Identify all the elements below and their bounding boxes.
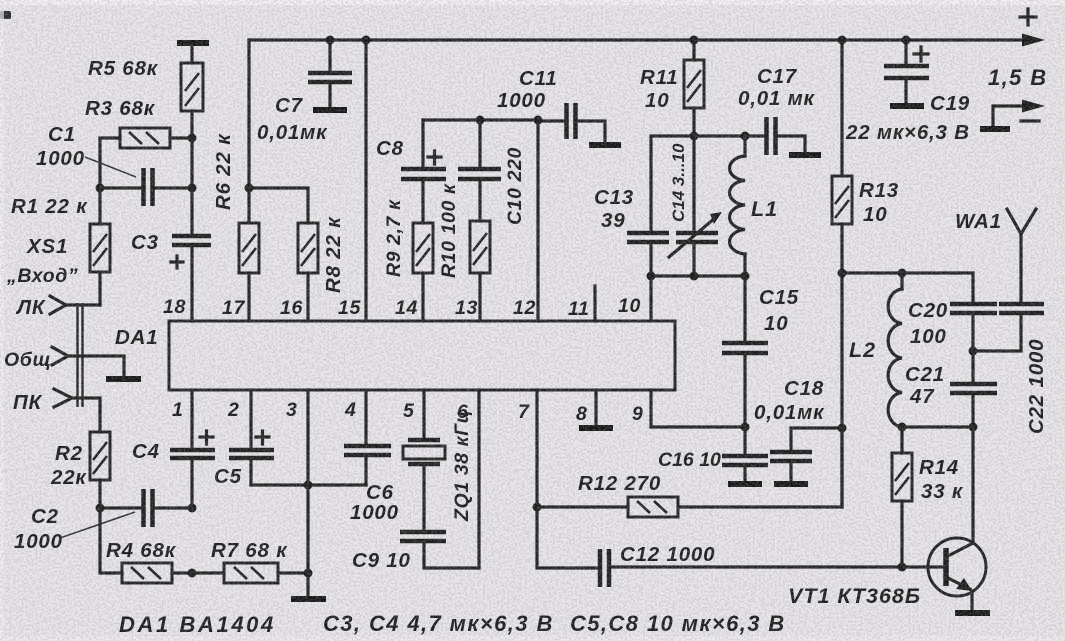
resistor R4 xyxy=(100,508,192,583)
inductor L1 xyxy=(730,136,745,276)
wire pointer C2 xyxy=(60,512,135,538)
op-amp DA1 IC body BA1404 xyxy=(169,321,675,390)
ground pin 3 xyxy=(291,596,326,602)
node C18 tap xyxy=(838,424,847,433)
node R12 tap xyxy=(533,503,542,512)
ground C11 xyxy=(589,142,621,148)
scan edge artifacts xyxy=(0,11,11,19)
ground C18 xyxy=(774,481,808,487)
node + power rail top xyxy=(249,34,1045,47)
ground pin 8 xyxy=(579,425,613,431)
wire pin 9 xyxy=(651,390,745,427)
node R11 rail xyxy=(690,36,699,45)
capacitor C12 xyxy=(600,549,946,587)
antenna WA1 xyxy=(1007,209,1036,303)
resistor R9 xyxy=(413,223,433,321)
node R13/L2 bus xyxy=(838,269,847,278)
resistor R10 xyxy=(470,221,490,321)
node L1 top xyxy=(741,132,750,141)
node pin3 cross xyxy=(304,481,313,490)
capacitor C17 xyxy=(745,117,805,155)
node R14 base wire xyxy=(898,563,907,572)
capacitor C2 xyxy=(100,489,192,527)
node C15/C16/pin9 xyxy=(741,423,750,432)
capacitor C14 trimmer xyxy=(669,136,722,276)
node R13 rail xyxy=(838,36,847,45)
capacitor C22 xyxy=(973,304,1044,351)
node R11/C14 xyxy=(690,132,699,141)
resistor R1 xyxy=(90,188,110,305)
capacitor C18 xyxy=(770,428,842,481)
ground xyxy=(106,376,141,382)
capacitor C15 xyxy=(722,276,768,427)
capacitor C11 xyxy=(538,103,605,142)
node C2 left xyxy=(96,504,105,513)
capacitor C21 xyxy=(950,351,997,427)
capacitor C6 xyxy=(344,390,391,485)
capacitor C16 xyxy=(722,427,768,481)
resistor R5 xyxy=(177,43,209,138)
capacitor C4 xyxy=(170,390,215,508)
wire pin 12 xyxy=(536,120,539,321)
wire rail to R6 xyxy=(247,40,250,188)
node C14 bottom xyxy=(690,272,699,281)
capacitor C1 xyxy=(100,168,192,206)
connector XS1 body xyxy=(78,303,83,407)
node C7 rail xyxy=(326,36,335,45)
node L1 bottom xyxy=(741,272,750,281)
transistor VT1 xyxy=(928,427,986,611)
resistor R13 xyxy=(832,40,852,507)
resistor R14 xyxy=(892,427,912,567)
node PK input xyxy=(54,389,100,432)
ground C19 xyxy=(890,103,924,109)
wire L2 top bus xyxy=(842,271,973,274)
node C1 right xyxy=(188,184,197,193)
crystal ZQ1 xyxy=(403,390,445,531)
node C11 tap xyxy=(534,116,543,125)
resistor R12 xyxy=(537,428,842,517)
pin 11 stub xyxy=(593,286,596,321)
wire pin 6 xyxy=(477,390,480,568)
wire branch to R8 xyxy=(249,188,308,223)
node C2 right xyxy=(188,504,197,513)
wire C8/C10/C11 bus xyxy=(423,118,538,121)
ground C16 xyxy=(728,481,762,487)
node R4/R7 xyxy=(188,569,197,578)
wire oscillator top bus xyxy=(651,136,745,232)
wire pin 3 to ground xyxy=(306,390,309,596)
capacitor C13 xyxy=(627,233,669,276)
node L2 bottom/R14 xyxy=(898,423,907,432)
pin 8 ground stub xyxy=(594,390,597,425)
wire oscillator bottom bus xyxy=(651,274,745,277)
capacitor C19 xyxy=(884,40,929,103)
ground C7 xyxy=(313,107,347,113)
wire rail to pin 15 xyxy=(364,40,367,321)
node C10 top xyxy=(476,116,485,125)
wire L2 bottom bus xyxy=(902,425,973,428)
node LK input xyxy=(50,296,100,314)
node L2 top xyxy=(898,269,907,278)
node R7 right xyxy=(304,569,313,578)
inductor L2 xyxy=(888,273,902,427)
capacitor C3 xyxy=(171,236,211,321)
wire pointer C1 xyxy=(85,157,136,177)
node C1 left xyxy=(96,184,105,193)
capacitor C8 xyxy=(401,120,446,223)
capacitor C7 xyxy=(308,40,352,107)
node C19 rail xyxy=(902,36,911,45)
wire pin 7 xyxy=(537,390,598,568)
capacitor C5 xyxy=(229,390,274,485)
node Obsch input xyxy=(52,347,124,377)
capacitor C20 xyxy=(950,273,997,351)
node pin10/C13 xyxy=(647,272,656,281)
ground VT1 emitter xyxy=(955,610,990,616)
wire pin 10 xyxy=(649,276,652,321)
resistor R2 xyxy=(90,432,110,508)
node - terminal xyxy=(980,100,1045,130)
resistor R7 xyxy=(192,563,308,583)
resistor R6 xyxy=(239,188,259,321)
+ supply symbol xyxy=(1020,9,1036,25)
capacitor C9 xyxy=(400,532,479,568)
node R6 tap xyxy=(245,184,254,193)
ground C17 xyxy=(789,152,821,158)
node C21/collector xyxy=(969,423,978,432)
node pin15 rail xyxy=(362,36,371,45)
resistor R3 xyxy=(100,128,192,188)
resistor R8 xyxy=(298,223,318,321)
capacitor C10 xyxy=(458,120,501,221)
resistor R11 xyxy=(684,40,704,136)
node C20/C21/C22 xyxy=(969,347,978,356)
node R3/R5 xyxy=(188,134,197,143)
wire C5/C6 to pin3 xyxy=(251,483,366,486)
wire R5 bottom to C3 xyxy=(190,138,193,236)
